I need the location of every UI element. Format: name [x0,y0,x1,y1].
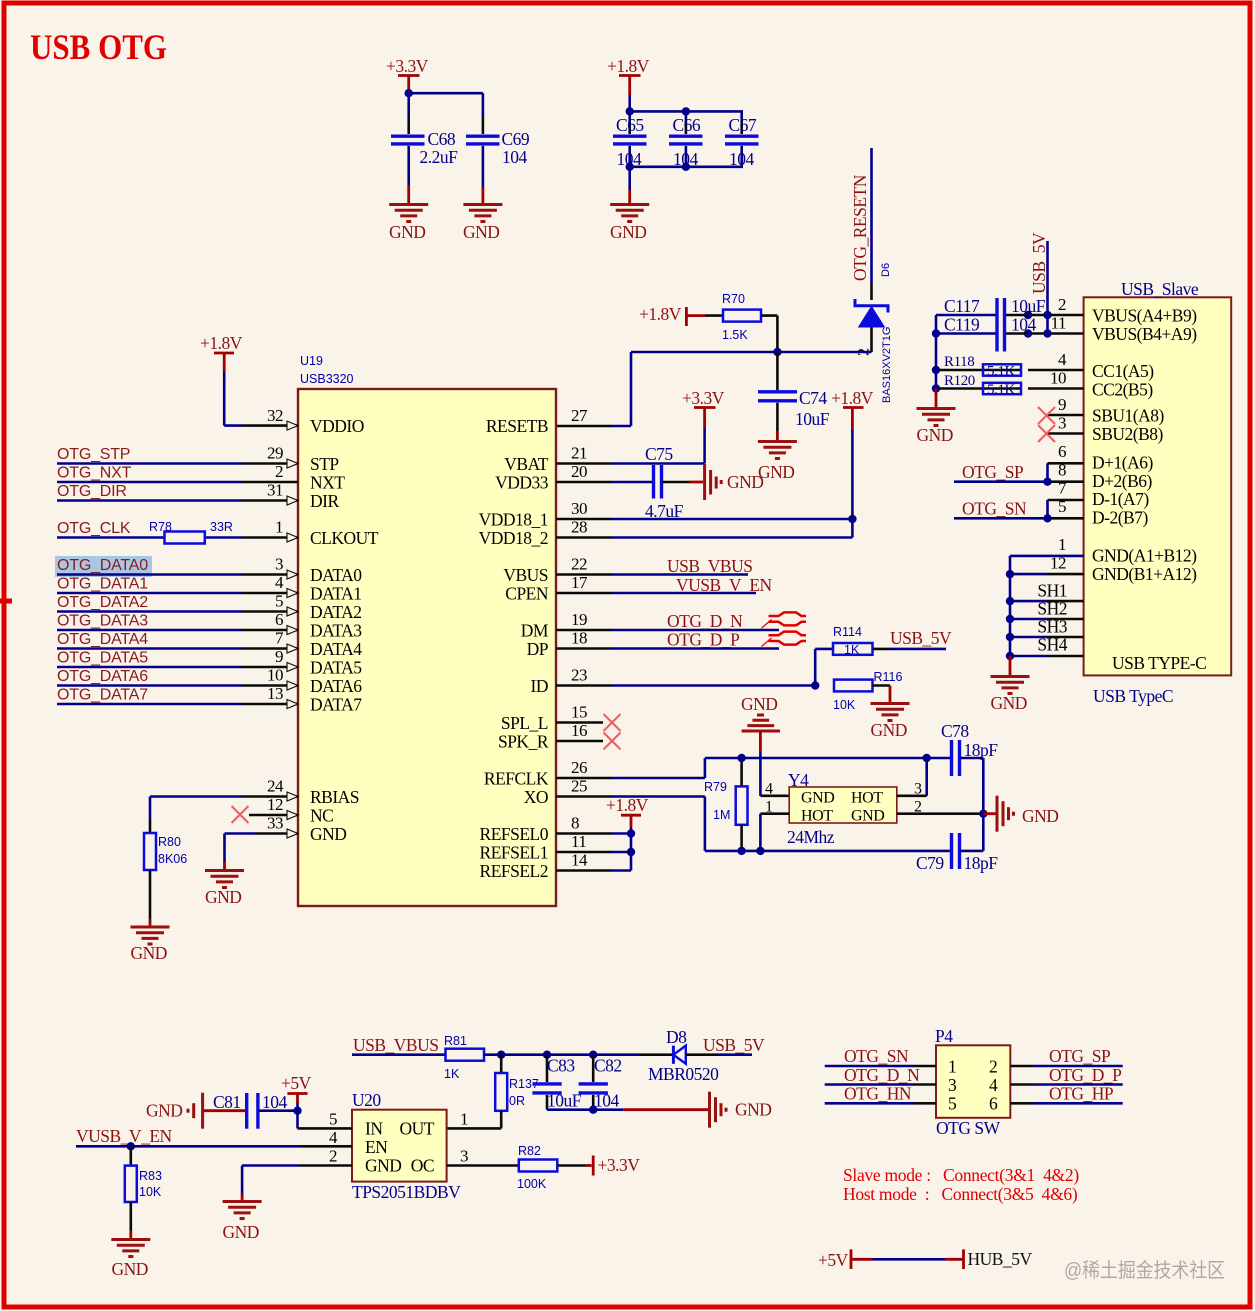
svg-text:GND(B1+A12): GND(B1+A12) [1092,564,1197,584]
svg-text:10uF: 10uF [1011,296,1046,316]
svg-text:8K06: 8K06 [158,852,187,866]
power port +5V [281,1073,312,1128]
svg-text:SPL_L: SPL_L [501,713,548,733]
power port +3.3V for R82 [593,1155,640,1176]
wire VUSB_V_EN pin17 [612,575,773,595]
svg-text:GND: GND [463,222,499,242]
capacitor C119 [936,315,1037,335]
svg-text:25: 25 [571,777,587,796]
no-connect X on pin 15 [604,714,621,731]
svg-text:29: 29 [267,444,283,463]
svg-text:5: 5 [275,592,283,611]
power port +1.8V for VDDIO [200,333,243,426]
svg-text:+5V: +5V [281,1073,312,1093]
svg-text:12: 12 [267,795,283,814]
svg-text:C75: C75 [645,444,673,464]
capacitor C65 [613,115,647,169]
svg-text:19: 19 [571,610,587,629]
svg-text:13: 13 [267,684,283,703]
svg-text:OTG_DATA1: OTG_DATA1 [57,576,148,593]
svg-text:33R: 33R [210,520,233,534]
junction node C74 tap [773,348,781,356]
wire OTG_HP from P4 [1010,1084,1122,1104]
junction node pin1 rail [756,847,764,855]
junction node REFSEL0 [627,829,635,837]
wire OTG_DATA5 [57,650,242,668]
svg-text:REFSEL2: REFSEL2 [480,861,548,881]
resistor R118 [944,354,1021,380]
pin stubs right [556,464,612,871]
svg-text:SPK_R: SPK_R [498,732,549,752]
junction node xtal gnd [979,810,987,818]
svg-text:1.5K: 1.5K [722,328,748,342]
ground under R83 [111,1240,150,1280]
svg-text:VBUS: VBUS [503,565,548,585]
pin numbers right side [571,406,588,870]
junction node VDD18 [848,515,856,523]
svg-text:C68: C68 [428,129,456,149]
svg-text:+1.8V: +1.8V [639,304,682,324]
wire REFSEL1 [612,851,631,854]
connector P USB_Slave body [1084,279,1232,706]
svg-text:GND: GND [917,425,953,445]
wire U20 pin1 OUT (joins R137) [500,1127,502,1129]
svg-text:23: 23 [571,666,587,685]
svg-text:104: 104 [262,1092,288,1112]
svg-text:R120: R120 [944,373,975,389]
wire OTG_NXT [57,465,242,483]
ground sideways for caps [710,1092,772,1128]
svg-text:OTG_DATA5: OTG_DATA5 [57,650,148,667]
svg-text:GND: GND [741,694,777,714]
ground under C69 [463,205,502,243]
shared capacitor plates C117/C119 [997,298,1005,352]
no-connect X on SBU2 [1038,425,1084,442]
wire rails C65/C66/C67 [630,95,742,203]
svg-text:DATA2: DATA2 [310,602,362,622]
svg-text:VDDIO: VDDIO [310,416,364,436]
svg-text:ID: ID [531,676,548,696]
wire OTG_D_P from P4 [1010,1065,1122,1085]
svg-text:@稀土掘金技术社区: @稀土掘金技术社区 [1064,1259,1225,1282]
diode D6 BAS16XV2T1G [855,263,893,403]
ground above crystal (inverted) [741,694,789,796]
svg-text:R83: R83 [139,1169,162,1183]
svg-text:NXT: NXT [310,473,345,493]
border tick mark [0,599,12,604]
ground under shield bus [991,656,1030,713]
svg-text:18pF: 18pF [964,853,999,873]
connector P4 body [935,1026,1010,1138]
svg-text:OTG_D_N: OTG_D_N [667,611,743,631]
svg-text:C66: C66 [673,115,701,135]
power port +1.8V for VDD18 [831,388,874,538]
pin names left column [310,416,379,844]
svg-text:GND: GND [801,790,834,807]
svg-text:31: 31 [267,481,283,500]
svg-text:6: 6 [1058,442,1066,461]
svg-text:GND: GND [146,1101,182,1121]
resistor R70 [722,292,761,342]
connector pin names [1092,306,1197,585]
wire OTG_DATA7 [57,687,242,705]
junction node C81/+5V [293,1107,301,1115]
svg-text:104: 104 [617,149,643,169]
svg-text:IN: IN [365,1119,383,1139]
svg-text:VUSB_V_EN: VUSB_V_EN [76,1126,173,1146]
svg-text:REFSEL1: REFSEL1 [480,843,548,863]
svg-text:U20: U20 [352,1090,381,1110]
svg-text:15: 15 [571,703,587,722]
wire USB_5V drop [1028,241,1084,334]
svg-text:OTG_SP: OTG_SP [962,462,1024,482]
svg-text:OTG_DATA0: OTG_DATA0 [57,557,148,574]
svg-text:28: 28 [571,518,587,537]
svg-text:C117: C117 [944,296,980,316]
differential pair marker D_P [762,632,807,647]
svg-text:1: 1 [948,1057,956,1077]
svg-text:6: 6 [989,1094,998,1114]
wire OTG_DATA6 [57,668,242,686]
wire REFCLK to top rail [612,758,952,778]
wire OTG_DATA2 [57,594,242,612]
junction node OTG_SP [1043,478,1051,486]
svg-text:5: 5 [948,1094,957,1114]
ground sideways for C75 [705,464,764,500]
ground under U20 pin2 [223,1202,262,1243]
svg-text:GND: GND [112,1259,148,1279]
svg-text:OTG_D_P: OTG_D_P [1049,1065,1122,1085]
svg-text:DM: DM [521,621,549,641]
capacitor C117 [936,296,1046,316]
svg-text:+1.8V: +1.8V [200,333,243,353]
svg-text:26: 26 [571,758,587,777]
svg-text:OTG_HN: OTG_HN [844,1084,912,1104]
junction nodes [626,107,691,171]
resistor R120 [944,373,1021,398]
svg-text:104: 104 [673,149,699,169]
svg-text:SBU2(B8): SBU2(B8) [1092,424,1164,444]
svg-text:+3.3V: +3.3V [598,1155,641,1175]
svg-text:4: 4 [765,781,773,798]
svg-text:+1.8V: +1.8V [831,388,874,408]
svg-text:P4: P4 [935,1026,953,1046]
svg-text:TPS2051BDBV: TPS2051BDBV [352,1182,461,1202]
svg-text:10K: 10K [833,698,856,712]
svg-text:104: 104 [1011,315,1037,335]
svg-text:3: 3 [948,1075,957,1095]
svg-text:33: 33 [267,814,283,833]
wire USB_VBUS input [352,1035,446,1055]
wire U20 pin5 [298,1127,353,1130]
svg-text:OTG_D_N: OTG_D_N [844,1065,920,1085]
svg-text:R81: R81 [444,1034,467,1048]
svg-text:8: 8 [571,814,579,833]
svg-text:Slave mode : Connect(3&1 4&: Slave mode : Connect(3&1 4&2) [843,1165,1079,1185]
svg-text:RBIAS: RBIAS [310,787,359,807]
junction node R137 tap [497,1051,505,1059]
highlight on OTG_DATA0 [55,556,152,577]
svg-text:HOT: HOT [851,790,883,807]
junction node C82 bottom [589,1106,597,1114]
svg-text:104: 104 [502,147,528,167]
svg-text:EN: EN [365,1137,388,1157]
svg-text:HOT: HOT [801,808,833,825]
differential pair marker D_N [762,612,807,628]
pin numbers left side [267,406,284,833]
svg-text:+3.3V: +3.3V [682,388,725,408]
svg-text:DATA0: DATA0 [310,565,362,585]
svg-text:OTG SW: OTG SW [936,1118,1001,1138]
wire IC GND pin 33 [225,834,256,870]
wire VDD18_1 pin30 [612,518,852,521]
wire OTG_DIR [57,483,242,501]
svg-text:OTG_D_P: OTG_D_P [667,630,740,650]
wire OTG_D_P pin18 [612,630,779,650]
svg-text:D+2(B6): D+2(B6) [1092,471,1153,491]
junction node REFSEL1 [627,848,635,856]
resistor R78 [149,520,233,544]
svg-text:18: 18 [571,629,587,648]
wire CC bus [936,315,1084,389]
svg-text:OTG_DATA2: OTG_DATA2 [57,594,148,611]
crystal Y4 [765,770,922,847]
junction node R79 bottom [737,847,745,855]
svg-text:DATA6: DATA6 [310,676,362,696]
svg-text:+3.3V: +3.3V [386,56,429,76]
svg-text:OTG_SP: OTG_SP [1049,1046,1111,1066]
svg-text:GND: GND [365,1156,401,1176]
wire OTG_DATA4 [57,631,242,649]
svg-text:+1.8V: +1.8V [606,795,649,815]
svg-text:30: 30 [571,499,587,518]
svg-text:9: 9 [1058,395,1066,414]
svg-text:VDD18_1: VDD18_1 [479,510,548,530]
svg-text:OTG_NXT: OTG_NXT [57,465,132,482]
svg-text:USB TypeC: USB TypeC [1093,686,1173,706]
svg-text:STP: STP [310,454,339,474]
svg-text:C79: C79 [916,853,944,873]
wire OTG_HN to P4 [825,1084,936,1104]
resistor R79 [704,758,748,851]
svg-text:11: 11 [1051,314,1066,333]
svg-text:4: 4 [275,573,284,592]
junction nodes VBUS rows [1024,311,1052,338]
svg-text:GND: GND [131,943,167,963]
svg-text:R78: R78 [149,520,172,534]
svg-text:GND: GND [389,222,425,242]
wire RESETB horizontal rail [556,352,872,426]
regulator U20 body [352,1090,461,1202]
power port +3.3V for VBAT [682,388,725,464]
svg-text:GND: GND [223,1222,259,1242]
svg-text:REFCLK: REFCLK [484,769,549,789]
ground sideways for C81 [146,1093,247,1129]
wire ID pin23 [612,649,833,686]
svg-text:2: 2 [989,1057,997,1077]
svg-text:USB_Slave: USB_Slave [1121,279,1199,299]
svg-text:USB OTG: USB OTG [30,27,167,67]
capacitor C66 [669,115,703,169]
svg-text:USB_VBUS: USB_VBUS [667,556,752,576]
wire R114 to USB_5V [873,628,953,649]
svg-text:Y4: Y4 [788,770,809,790]
svg-text:24: 24 [267,777,284,796]
svg-text:21: 21 [571,444,587,463]
ground under C65 [610,205,649,243]
svg-text:OTG_CLK: OTG_CLK [57,520,131,537]
capacitor C82 [579,1055,622,1111]
wire crystal pin3 to top rail [897,758,927,796]
svg-text:3: 3 [460,1147,468,1166]
junction node C78 rail [926,757,928,759]
capacitor C67 [725,115,759,169]
svg-text:USB3320: USB3320 [300,372,354,386]
wire cap ground rail [547,1108,709,1111]
svg-text:4: 4 [989,1075,998,1095]
ground under pin 33 [205,871,244,908]
svg-text:D+1(A6): D+1(A6) [1092,453,1153,473]
svg-text:5.1K: 5.1K [987,382,1016,398]
svg-text:GND: GND [851,808,884,825]
svg-text:GND(A1+B12): GND(A1+B12) [1092,546,1197,566]
power port +3.3V [386,56,429,90]
svg-text:USB_5V: USB_5V [1029,232,1049,294]
svg-text:10: 10 [267,666,283,685]
no-connect X on SBU1 [1038,407,1084,424]
no-connect X on pin 12 [232,806,249,823]
svg-text:GND: GND [205,887,241,907]
svg-text:VBAT: VBAT [504,454,549,474]
svg-text:6: 6 [275,610,283,629]
svg-text:10uF: 10uF [547,1091,582,1111]
svg-text:1K: 1K [444,1067,460,1081]
resistor R83 [125,1146,162,1238]
svg-text:DIR: DIR [310,491,339,511]
wire OTG_DATA3 [57,613,242,631]
wire VBUS rail to D8 [501,1053,673,1056]
svg-text:C119: C119 [944,315,980,335]
wire VDD18_2 pin28 [612,536,852,539]
svg-text:USB_5V: USB_5V [703,1035,765,1055]
svg-text:OTG_DATA3: OTG_DATA3 [57,613,148,630]
ground under R116 [871,704,910,741]
junction node ID [811,681,819,689]
svg-text:1: 1 [460,1110,468,1129]
wire RESETB vertical to diode [870,148,873,352]
svg-text:+5V: +5V [818,1250,849,1270]
power port +1.8V [607,56,650,95]
svg-text:DATA5: DATA5 [310,658,362,678]
svg-text:32: 32 [267,406,283,425]
junction node [405,89,413,97]
junction node OTG_SN [1043,514,1051,522]
svg-text:R79: R79 [704,780,727,794]
svg-text:CPEN: CPEN [505,584,549,604]
svg-text:USB TYPE-C: USB TYPE-C [1112,653,1206,673]
svg-text:C82: C82 [594,1056,622,1076]
junction nodes CC bus [932,329,940,392]
svg-text:Host mode : Connect(3&5 4&: Host mode : Connect(3&5 4&6) [843,1184,1078,1204]
svg-text:7: 7 [275,629,284,648]
svg-text:R80: R80 [158,835,181,849]
svg-text:DATA7: DATA7 [310,695,362,715]
svg-text:D8: D8 [666,1027,687,1047]
svg-text:OTG_SN: OTG_SN [844,1046,909,1066]
svg-text:0R: 0R [509,1094,525,1108]
svg-text:R114: R114 [833,625,862,639]
diode D8 MBR0520 [648,1027,719,1084]
svg-text:1: 1 [1058,535,1066,554]
junction node R79 top [737,754,745,762]
svg-text:1: 1 [275,518,283,537]
svg-text:R70: R70 [722,292,745,306]
wire OTG_SP to D+ pins [954,462,1084,482]
svg-text:OTG_DIR: OTG_DIR [57,483,127,500]
wire GND/shield bus [1010,556,1084,656]
svg-text:C65: C65 [616,115,644,135]
capacitor C81 [213,1092,298,1129]
svg-text:10uF: 10uF [795,409,830,429]
svg-text:OTG_DATA4: OTG_DATA4 [57,631,148,648]
svg-text:SBU1(A8): SBU1(A8) [1092,406,1165,426]
junction node R83 tap [127,1142,135,1150]
wire D8 to USB_5V [686,1035,765,1055]
ground sideways for crystal [983,796,1058,832]
svg-text:1K: 1K [844,643,860,657]
resistor R81 [444,1034,501,1081]
wire OTG_DATA1 [57,576,242,594]
resistor R114 [833,625,873,657]
junction nodes shield bus [1006,570,1014,660]
svg-text:OTG_STP: OTG_STP [57,446,130,463]
wire RBIAS net [150,797,242,834]
wire OTG_STP [57,446,242,464]
svg-text:U19: U19 [300,354,323,368]
capacitor C78 [941,721,998,814]
svg-text:4: 4 [329,1128,338,1147]
wire OTG_CLK [57,520,242,538]
svg-text:22: 22 [571,555,587,574]
wire OTG_SP from P4 [1010,1046,1122,1066]
ground under C74 [758,442,797,483]
svg-text:4: 4 [1058,350,1067,369]
svg-text:REFSEL0: REFSEL0 [480,824,549,844]
svg-text:100K: 100K [517,1177,547,1191]
svg-text:BAS16XV2T1G: BAS16XV2T1G [881,327,893,403]
svg-text:GND: GND [310,824,346,844]
resistor R137 [447,1055,539,1129]
svg-text:VBUS(A4+B9): VBUS(A4+B9) [1092,306,1197,326]
svg-text:104: 104 [594,1091,620,1111]
svg-text:VBUS(B4+A9): VBUS(B4+A9) [1092,324,1197,344]
power port +1.8V for REFSEL [606,795,649,871]
svg-text:24Mhz: 24Mhz [787,827,835,847]
wire REFSEL2 [612,869,631,872]
svg-text:14: 14 [571,851,588,870]
svg-text:C81: C81 [213,1092,241,1112]
wire OTG_D_N to P4 [825,1065,936,1085]
svg-text:16: 16 [571,721,587,740]
svg-text:DATA4: DATA4 [310,639,362,659]
resistor R80 [144,833,187,926]
svg-text:R118: R118 [944,354,974,370]
svg-text:RESETB: RESETB [486,416,548,436]
svg-text:OTG_DATA7: OTG_DATA7 [57,687,148,704]
ground under R80 [131,927,170,963]
wire VBAT pin21 [612,462,705,465]
svg-text:27: 27 [571,406,588,425]
